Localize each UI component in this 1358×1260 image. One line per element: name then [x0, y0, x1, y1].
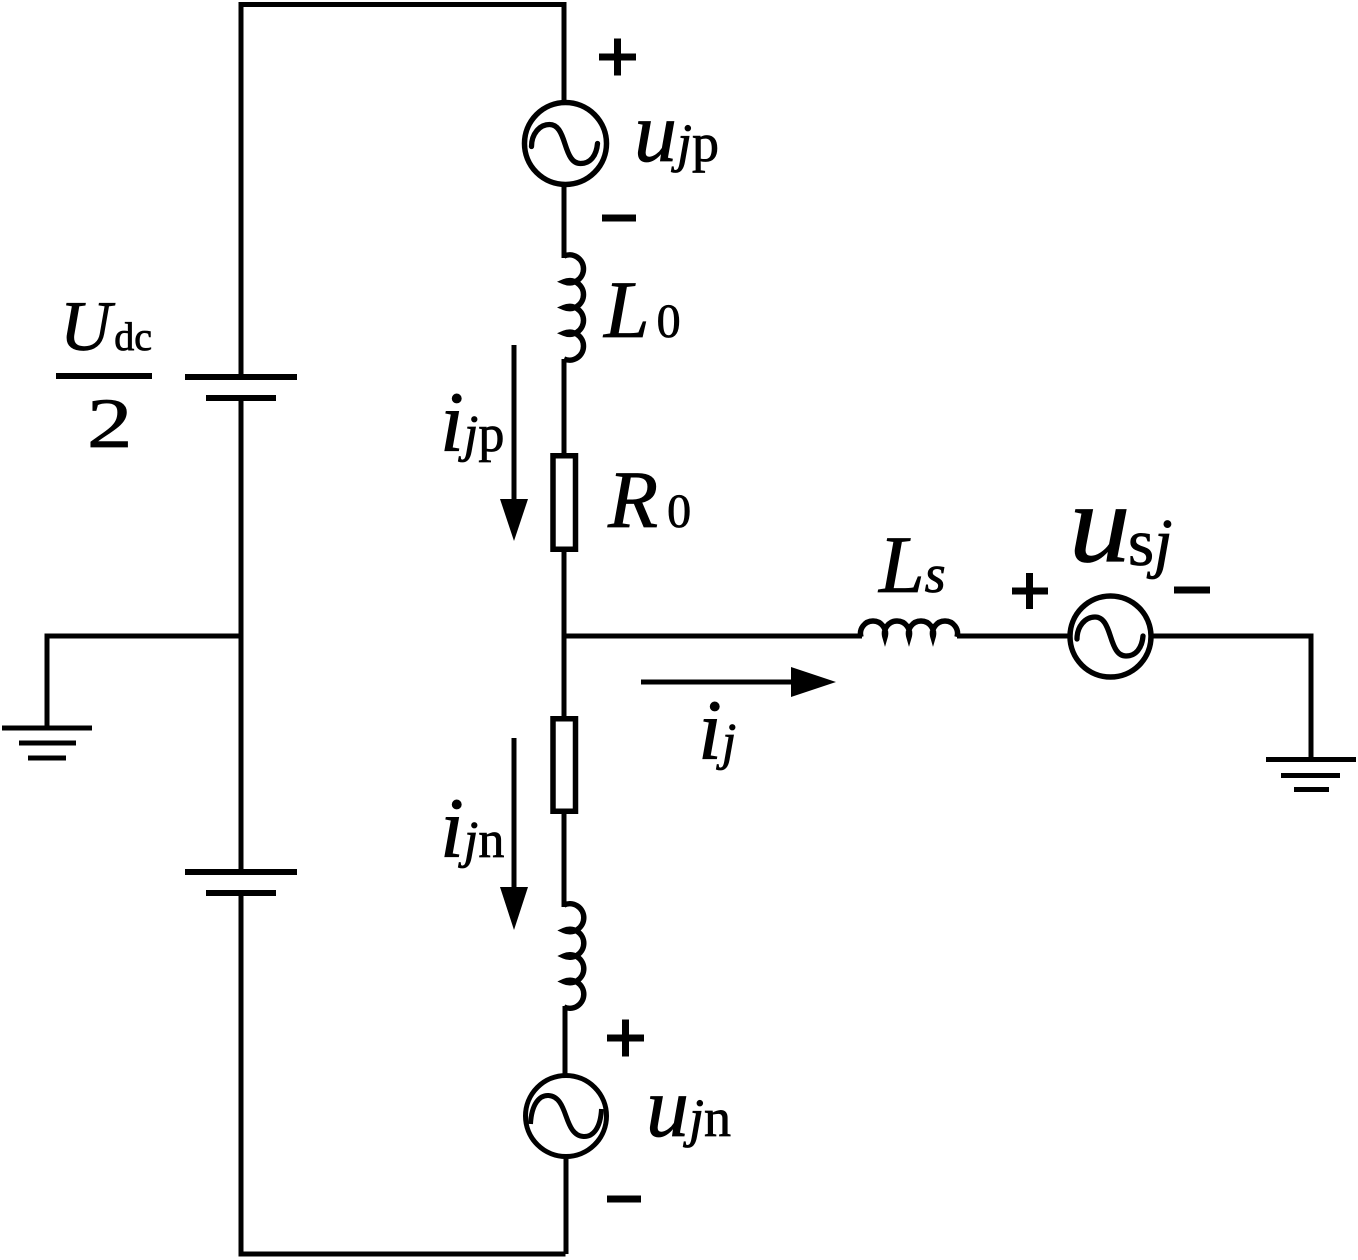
minus sign u_jp	[602, 215, 636, 222]
inductor L0	[564, 255, 583, 360]
svg-text:Udc: Udc	[60, 288, 152, 366]
battery B1 long plate	[185, 374, 297, 380]
ground right	[1266, 760, 1356, 790]
svg-text:L0: L0	[603, 264, 681, 355]
minus sign u_sj	[1174, 587, 1210, 594]
wire u_jn to bottom	[564, 1156, 569, 1254]
wire u_sj to right corner	[1149, 634, 1314, 639]
resistor lower arm	[553, 719, 576, 812]
wire right drop	[1309, 636, 1314, 759]
wire bottom return	[239, 1252, 566, 1257]
svg-text:ij: ij	[698, 682, 736, 778]
label Udc/2	[56, 288, 152, 463]
wire Ls to u_sj	[957, 634, 1072, 639]
wire coil to u_jn	[563, 1006, 568, 1078]
svg-text:2: 2	[87, 383, 132, 462]
wire left bus upper	[239, 2, 244, 377]
ac source u_jp	[525, 103, 607, 185]
svg-text:u: u	[1069, 462, 1131, 586]
battery B1 short plate	[206, 395, 276, 401]
resistor R0	[553, 456, 576, 550]
wire to left ground	[47, 636, 241, 728]
svg-text:ijn: ijn	[440, 780, 504, 876]
plus sign u_jn	[607, 1020, 644, 1057]
svg-text:s: s	[1128, 506, 1154, 580]
wire left bus lower	[239, 893, 244, 1257]
wire node J to Ls	[564, 634, 862, 639]
inductor lower arm	[564, 904, 584, 1009]
wire center top	[562, 2, 567, 105]
wire R0 to node J	[562, 552, 567, 639]
plus sign u_sj	[1012, 573, 1048, 609]
wire left bus middle	[239, 398, 244, 872]
svg-text:ujp: ujp	[634, 84, 719, 180]
svg-text:Ls: Ls	[878, 519, 946, 610]
arrow i_j	[641, 667, 836, 697]
minus sign u_jn	[607, 1196, 641, 1203]
plus sign u_jp	[599, 39, 636, 76]
battery B2 short plate	[206, 890, 276, 896]
svg-text:ujn: ujn	[646, 1059, 731, 1155]
wire L0 to R0	[562, 359, 567, 455]
svg-text:ijp: ijp	[440, 374, 504, 470]
arrow i_jp	[500, 345, 528, 541]
ac source u_sj	[1070, 596, 1151, 677]
svg-text:R0: R0	[607, 454, 691, 545]
wire top bus	[239, 2, 564, 7]
ac source u_jn	[526, 1076, 607, 1157]
ground left	[2, 728, 92, 758]
wire u_jp to L0	[562, 184, 567, 258]
battery B2 long plate	[185, 869, 297, 875]
inductor Ls	[860, 621, 957, 637]
wire resistor to lower coil	[562, 813, 567, 907]
wire node J down	[562, 636, 567, 717]
arrow i_jn	[500, 738, 528, 930]
